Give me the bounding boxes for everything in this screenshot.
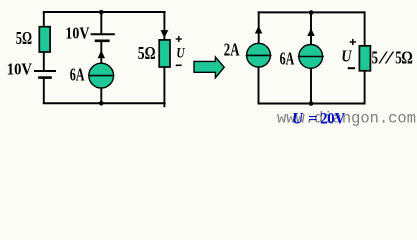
battery V2 10V long plate	[91, 33, 115, 35]
node junction dot top of right-circuit middle branch	[309, 10, 314, 15]
svg-text:5Ω: 5Ω	[16, 28, 32, 48]
wire: middle branch battery to current source I1	[100, 41, 102, 64]
svg-text:U: U	[341, 46, 352, 65]
wire: middle branch below I1	[100, 88, 102, 104]
label - (polarity of U, right circuit)	[348, 67, 355, 69]
wire: right circuit top	[258, 11, 366, 13]
node junction dot bottom of right-circuit middle branch	[309, 101, 314, 106]
wire: right circuit right branch lower	[364, 71, 366, 105]
battery V2 10V short plate	[95, 39, 110, 42]
wire: right branch vertical lower with tail	[163, 67, 165, 107]
wire: left branch vertical (upper, through resistor R1)	[43, 11, 45, 71]
svg-text:10V: 10V	[65, 23, 89, 42]
current source I1 diameter line	[89, 75, 115, 77]
label 5//5Ω (R3 value)	[372, 48, 413, 68]
wire: middle branch from top to battery V2	[100, 12, 102, 34]
resistor R1 5Ω (left branch)	[39, 27, 50, 52]
label - (polarity of U, left circuit)	[176, 64, 182, 66]
svg-text:Ω: Ω	[401, 48, 413, 68]
svg-text:U: U	[292, 109, 304, 128]
wire: right circuit right branch upper	[364, 11, 366, 45]
current source I1 6A circle	[89, 63, 114, 88]
svg-text:=: =	[308, 109, 317, 128]
label + (polarity of U, right circuit)	[350, 39, 356, 45]
label U = 20V (answer, blue)	[292, 109, 345, 128]
wire: right branch vertical upper (current arrow)	[163, 11, 165, 40]
svg-text:5Ω: 5Ω	[138, 43, 156, 63]
node junction dot top of middle branch	[99, 10, 104, 15]
svg-text:2A: 2A	[224, 40, 240, 60]
wire: right circuit left branch upper	[258, 11, 260, 44]
svg-text:10V: 10V	[7, 59, 32, 78]
current source I2 2A circle	[247, 43, 271, 67]
resistor R2 5Ω (right branch of left circuit)	[159, 40, 170, 67]
node junction dot bottom of middle branch	[99, 101, 104, 106]
current source I3 6A circle	[299, 45, 323, 69]
arrowhead down on right branch	[161, 30, 169, 38]
wire: right circuit middle branch upper	[310, 12, 312, 45]
label + (polarity of U, left circuit)	[176, 36, 182, 42]
svg-text:6A: 6A	[280, 49, 295, 69]
current source I3 diameter line	[298, 56, 324, 58]
battery V1 10V long plate	[34, 70, 56, 72]
arrowhead up (I2 current direction)	[255, 26, 262, 34]
arrowhead up (I1 current direction)	[98, 50, 105, 58]
svg-text:6A: 6A	[70, 64, 85, 84]
wire: left branch vertical (below battery)	[43, 78, 45, 104]
svg-text:U: U	[176, 45, 185, 61]
wire: right circuit middle branch lower	[310, 68, 312, 104]
arrowhead up (I3 current direction)	[307, 28, 314, 36]
wire: left circuit top	[43, 11, 166, 13]
current source I2 diameter line	[246, 54, 272, 56]
svg-text:5: 5	[372, 48, 379, 68]
wire: right circuit bottom	[258, 103, 366, 105]
wire: right circuit left branch lower	[258, 67, 260, 105]
battery V1 10V short plate	[38, 76, 52, 79]
big transform arrow between circuits	[194, 57, 224, 78]
wire: left circuit bottom	[43, 102, 166, 104]
resistor R3 5//5Ω	[359, 46, 370, 71]
svg-text:20V: 20V	[320, 109, 345, 128]
